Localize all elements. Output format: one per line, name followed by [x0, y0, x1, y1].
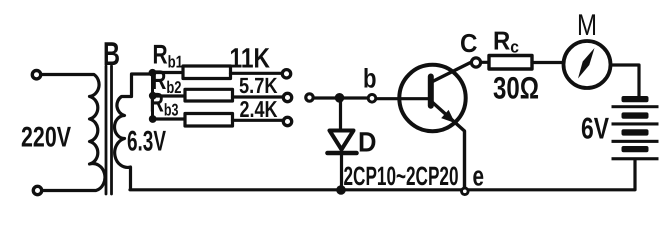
svg-text:e: e [473, 161, 485, 192]
svg-text:6.3V: 6.3V [127, 126, 166, 158]
svg-text:2.4K: 2.4K [240, 96, 278, 122]
svg-text:5.7K: 5.7K [239, 73, 278, 98]
svg-text:b: b [363, 64, 377, 94]
svg-text:2CP10~2CP20: 2CP10~2CP20 [344, 161, 459, 191]
svg-text:220V: 220V [21, 122, 71, 154]
svg-text:30Ω: 30Ω [493, 71, 539, 106]
svg-text:D: D [358, 127, 377, 158]
svg-text:M: M [577, 9, 597, 42]
svg-text:C: C [460, 28, 478, 58]
svg-text:6V: 6V [581, 113, 609, 146]
svg-text:11K: 11K [230, 43, 271, 74]
svg-text:B: B [103, 35, 120, 72]
